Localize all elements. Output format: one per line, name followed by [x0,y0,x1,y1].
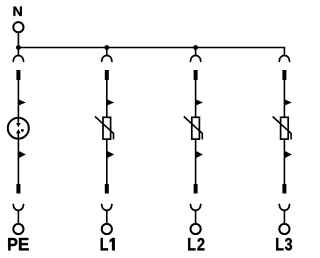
varistor L1 body [103,117,111,139]
terminal circle L2 [191,224,201,234]
wire PE socket to terminal [17,210,19,223]
socket contact bottom L3 [279,204,290,210]
socket contact top L3 [279,56,290,62]
plug pin top L1 [105,70,109,80]
junction dot col PE [16,45,21,50]
socket contact top L1 [101,56,112,62]
disconnect arrow upper L2 [196,99,203,105]
socket contact top L2 [190,56,201,62]
varistor L2 strike [184,117,203,140]
socket contact bottom L1 [101,204,112,210]
wire bus stub L2 [195,48,197,56]
wire L1 varistor to pin [106,139,108,184]
wire L3 varistor to pin [283,139,285,184]
terminal circle PE [13,224,23,234]
wire L3 socket to terminal [283,210,285,223]
wire L2 varistor to pin [195,139,197,184]
node L1 label [101,238,115,250]
wire L3 pin to varistor [283,80,285,117]
disconnect arrow upper L3 [284,99,291,105]
terminal circle L3 [279,224,289,234]
junction dot col L2 [193,45,198,50]
varistor L1 strike [95,117,114,140]
disconnect arrow lower L2 [196,151,203,158]
socket contact bottom PE [13,204,24,210]
wire bus horizontal with corner down at right [18,48,284,55]
node PE label [8,238,29,250]
junction dot col L1 [104,45,109,50]
disconnect arrow lower PE [18,151,25,158]
disconnect arrow upper PE [18,99,25,105]
wire PE spark gap to pin [17,139,19,184]
varistor L2 body [192,117,200,139]
wire L1 pin to varistor [106,80,108,117]
spark gap electrode bottom [17,133,19,139]
plug pin bottom PE [16,184,20,194]
varistor L3 strike [273,117,292,140]
node L2 label [188,238,204,250]
socket contact top PE [13,55,24,61]
spark gap F1 circle [8,118,29,139]
disconnect arrow lower L1 [107,151,114,158]
plug pin bottom L1 [105,184,109,194]
plug pin top L3 [282,70,286,80]
spark gap gas dot [21,129,24,132]
wire PE pin to spark gap [17,80,19,118]
terminal N circle [13,22,23,32]
spark gap electrode top [17,118,19,124]
plug pin bottom L3 [282,184,286,194]
wire L2 pin to varistor [195,80,197,117]
node L3 label [276,238,292,250]
wire bus stub L1 [106,48,108,56]
node N label [14,7,22,16]
disconnect arrow lower L3 [284,151,291,158]
plug pin bottom L2 [194,184,198,194]
wire L1 socket to terminal [106,210,108,223]
terminal circle L1 [102,224,112,234]
disconnect arrow upper L1 [107,99,114,105]
wire L2 socket to terminal [195,210,197,223]
socket contact bottom L2 [190,204,201,210]
wire N terminal to bus [17,33,19,55]
varistor L3 body [281,117,289,139]
plug pin top PE [16,70,20,80]
plug pin top L2 [194,70,198,80]
